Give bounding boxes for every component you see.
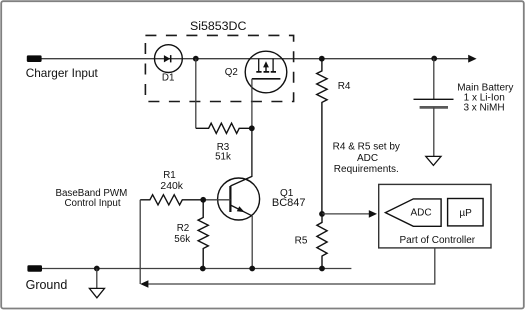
node: junction R5 bottom xyxy=(319,266,325,272)
svg-text:R1: R1 xyxy=(163,170,176,181)
svg-text:µP: µP xyxy=(459,208,472,219)
transistor Q2 (MOSFET) xyxy=(245,51,287,93)
resistor R3 xyxy=(196,123,252,133)
svg-text:240k: 240k xyxy=(160,181,183,192)
resistor R5 xyxy=(317,214,327,269)
svg-text:R4 & R5 set by: R4 & R5 set by xyxy=(333,142,400,153)
wire: junction down left of R3 xyxy=(195,59,197,129)
svg-text:Requirements.: Requirements. xyxy=(334,164,399,175)
resistor R1 xyxy=(140,195,203,205)
node: junction D1 output / R3 xyxy=(193,56,199,62)
node: Charger Input terminal xyxy=(27,55,42,62)
node: junction R4 / R5 / ADC tap xyxy=(319,211,325,217)
node: junction R3 / Q2 gate / Q1 collector xyxy=(249,125,255,131)
svg-text:Charger Input: Charger Input xyxy=(26,66,99,80)
transistor Q1 xyxy=(218,178,260,269)
wire: tap to ADC with arrow xyxy=(322,213,369,215)
svg-text:3 x NiMH: 3 x NiMH xyxy=(463,102,504,113)
node: junction R1 / R2 / Q1 base xyxy=(200,197,206,203)
node: junction R4 top on rail xyxy=(319,56,325,62)
svg-text:R2: R2 xyxy=(177,223,190,234)
svg-text:Part of Controller: Part of Controller xyxy=(400,235,476,246)
resistor R2 xyxy=(198,200,208,269)
node: top rail output arrow xyxy=(468,55,476,63)
svg-text:ADC: ADC xyxy=(410,207,431,218)
wire: PWM feedback from controller xyxy=(139,200,141,284)
battery: Main Battery cell xyxy=(414,59,454,157)
block: microprocessor xyxy=(448,199,484,226)
svg-text:Control Input: Control Input xyxy=(64,198,120,209)
resistor R4 xyxy=(317,59,327,214)
svg-text:R5: R5 xyxy=(295,236,308,247)
wire: down to Q1 collector xyxy=(230,128,252,186)
svg-text:Q2: Q2 xyxy=(225,67,238,78)
svg-text:R4: R4 xyxy=(338,81,351,92)
svg-text:51k: 51k xyxy=(215,152,231,163)
op-amp U? ADC input shape xyxy=(385,199,441,226)
wire: Q2 gate down to R3 xyxy=(251,79,253,129)
wire: top rail from charger input to battery xyxy=(42,58,469,60)
svg-text:Ground: Ground xyxy=(26,278,68,292)
wire: ground bus xyxy=(42,268,352,270)
svg-text:Si5853DC: Si5853DC xyxy=(190,19,247,33)
node: junction battery top on rail xyxy=(431,56,437,62)
ground: battery ground symbol xyxy=(426,156,441,165)
diode D1 xyxy=(155,45,183,73)
node: junction R2 bottom xyxy=(200,266,206,272)
svg-text:ADC: ADC xyxy=(357,153,378,164)
node: junction ground symbol xyxy=(94,266,100,272)
Si5853DC dashed package box xyxy=(145,35,293,101)
node: junction Q1 emitter bottom xyxy=(249,266,255,272)
svg-text:56k: 56k xyxy=(174,234,190,245)
controller box: Part of Controller xyxy=(379,184,491,248)
svg-text:BC847: BC847 xyxy=(272,197,306,209)
wire: base lead xyxy=(203,199,230,201)
node: Ground terminal xyxy=(27,265,42,271)
ground: bus ground symbol xyxy=(96,269,98,289)
svg-text:D1: D1 xyxy=(162,72,175,83)
